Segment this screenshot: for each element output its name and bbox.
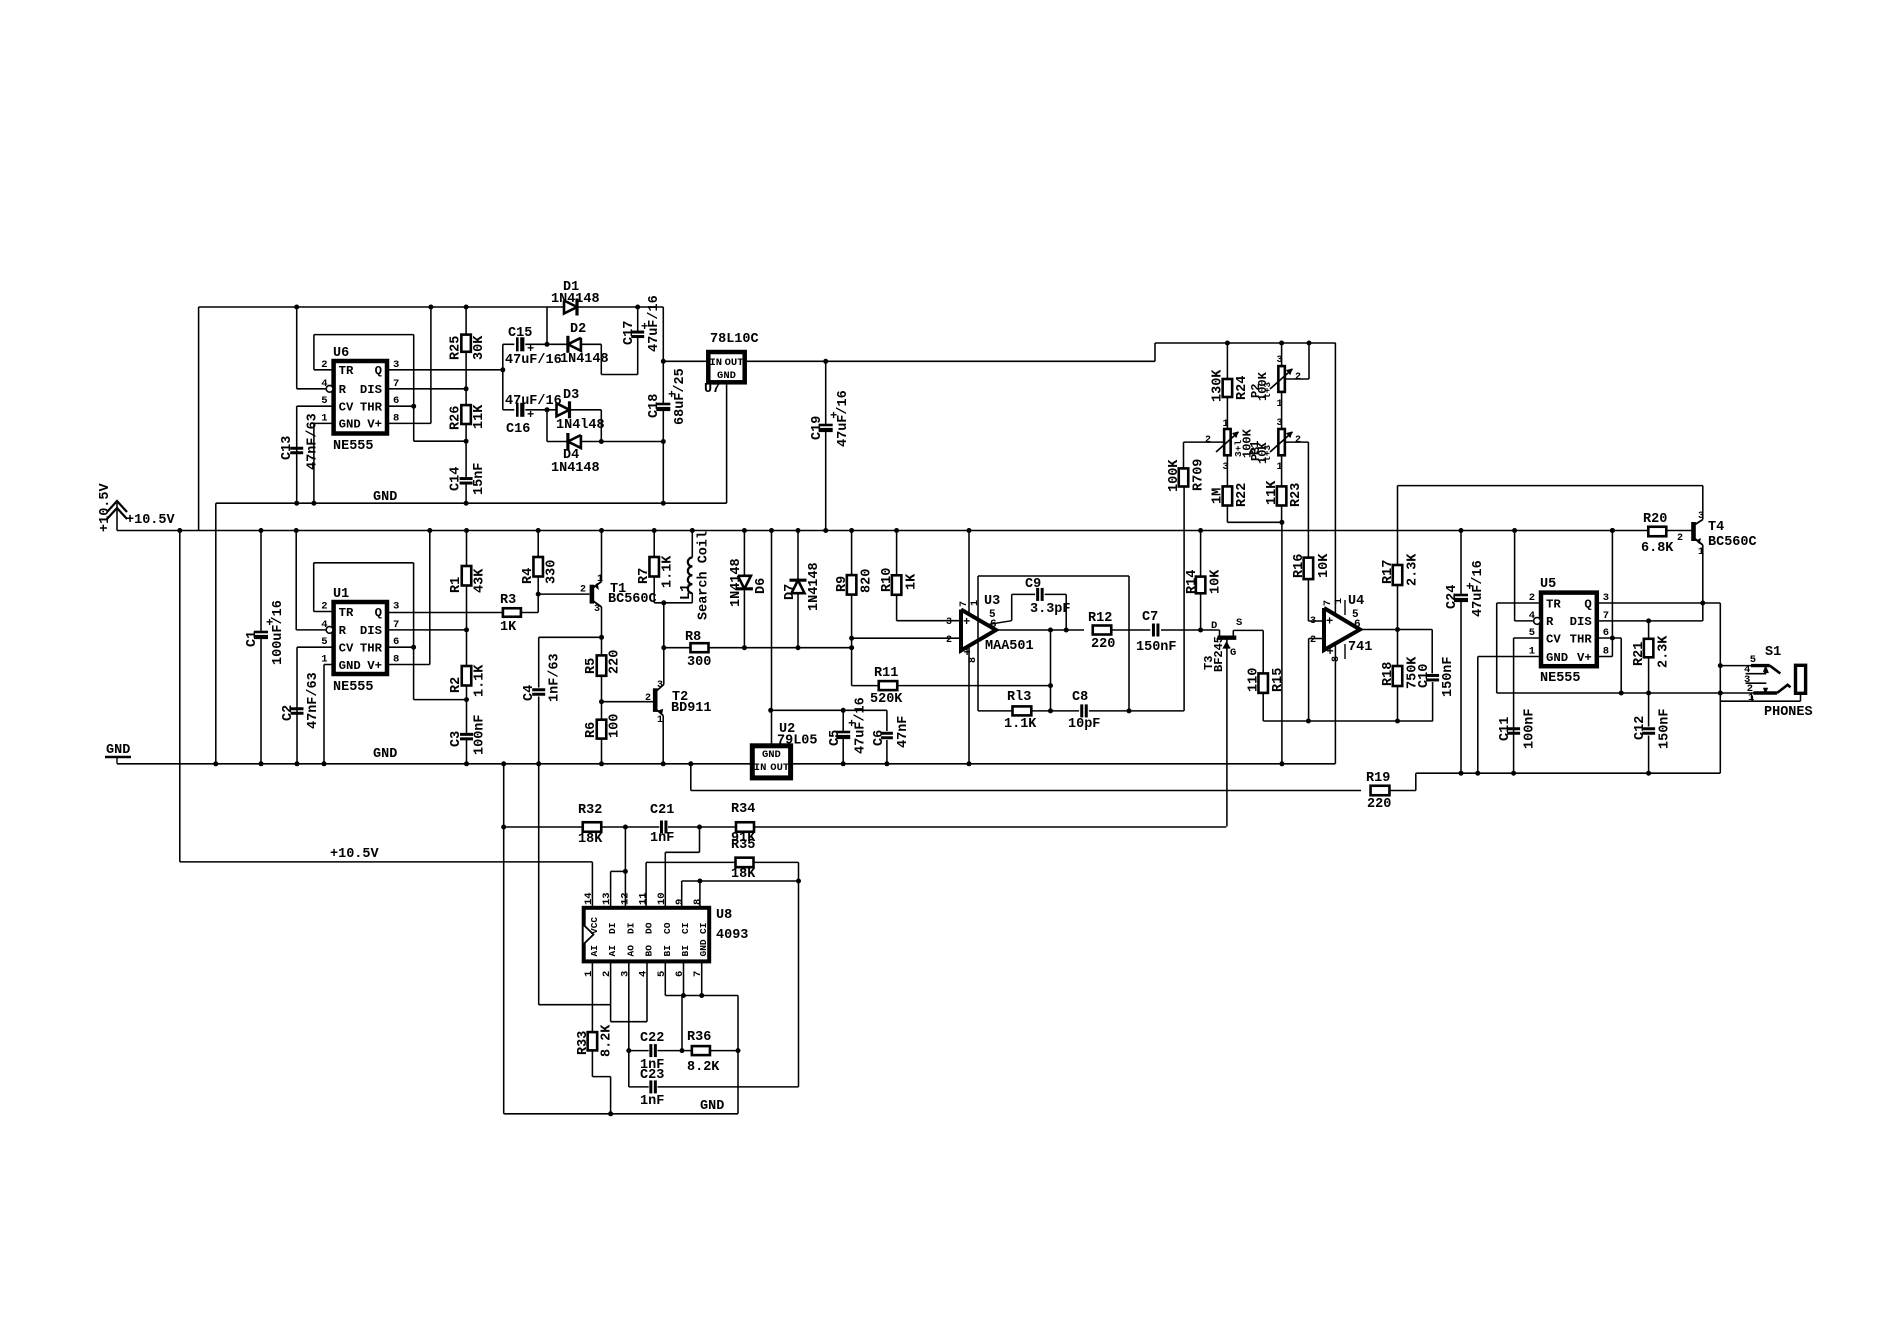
svg-text:GND: GND (700, 1099, 724, 1114)
svg-text:1: 1 (1748, 692, 1754, 704)
svg-text:C14: C14 (449, 467, 464, 491)
svg-text:2: 2 (321, 359, 327, 371)
resistor R3 1K (503, 608, 521, 617)
svg-text:47uF/16: 47uF/16 (1471, 560, 1486, 617)
svg-text:Q: Q (375, 606, 383, 620)
svg-text:U4: U4 (1348, 594, 1364, 609)
resistor R19 220 (1371, 786, 1390, 796)
svg-text:7: 7 (1603, 610, 1609, 622)
svg-text:6: 6 (1354, 619, 1361, 631)
svg-text:9: 9 (674, 899, 686, 905)
svg-text:+: + (963, 615, 970, 629)
svg-text:11K: 11K (472, 404, 487, 429)
svg-text:2.3K: 2.3K (1406, 553, 1421, 586)
svg-text:79L05: 79L05 (777, 734, 818, 749)
svg-text:1: 1 (1334, 598, 1345, 604)
wire R pin U5 (1515, 620, 1534, 622)
svg-text:8: 8 (393, 412, 399, 424)
svg-text:1M: 1M (1211, 488, 1226, 504)
wire R22/R23 rail down to GND (1281, 522, 1283, 764)
wire CV pin U5 / C11 (1514, 637, 1541, 639)
svg-text:1: 1 (321, 412, 327, 424)
svg-text:CI: CI (698, 923, 709, 934)
wire GND drop to R19 line (690, 764, 692, 791)
capacitor C4 1nF/63 (532, 688, 545, 691)
svg-text:GND: GND (1546, 651, 1568, 665)
resistor R20 6.8K (1648, 527, 1666, 537)
svg-text:GND: GND (373, 747, 397, 762)
svg-text:R: R (339, 383, 347, 397)
resistor R17 2.3K (1397, 486, 1399, 565)
diode D6 1N4148 (743, 531, 745, 576)
svg-text:47uF/16: 47uF/16 (505, 394, 562, 409)
svg-text:R12: R12 (1088, 611, 1112, 626)
capacitor C5 47uF/16 (842, 710, 844, 731)
diode D4 1N4148 (568, 435, 581, 448)
svg-text:S: S (1236, 617, 1242, 629)
svg-text:C22: C22 (640, 1031, 664, 1046)
wire R16 to U4 + input (1308, 620, 1324, 622)
svg-text:6.8K: 6.8K (1641, 541, 1674, 556)
svg-text:820: 820 (860, 569, 875, 593)
svg-text:6: 6 (1603, 627, 1609, 639)
svg-text:U5: U5 (1540, 577, 1556, 592)
svg-text:DIS: DIS (360, 624, 382, 638)
capacitor C13 (290, 447, 303, 450)
wire CV pin U6 / C13 column (297, 405, 334, 407)
svg-text:C12: C12 (1633, 716, 1648, 740)
svg-text:8: 8 (1603, 646, 1609, 658)
svg-text:7: 7 (959, 601, 970, 607)
svg-text:100K: 100K (1167, 459, 1182, 492)
resistor R18 750K (1397, 630, 1399, 667)
wire GND branch x503.7 (503, 764, 505, 1114)
svg-text:15nF: 15nF (472, 463, 487, 495)
svg-text:V+: V+ (367, 418, 382, 432)
svg-text:PHONES: PHONES (1764, 705, 1813, 720)
wire CV pin U1 / C2 (297, 646, 334, 648)
svg-text:2: 2 (1677, 533, 1683, 544)
svg-text:6: 6 (990, 619, 997, 631)
wire Q to C15/C16 node (502, 344, 504, 410)
svg-text:7: 7 (393, 378, 399, 390)
svg-text:2: 2 (580, 585, 586, 596)
wire pin9/pin8 row (682, 880, 799, 882)
capacitor C8 10pF (1080, 704, 1083, 717)
svg-text:18K: 18K (731, 867, 756, 882)
svg-text:R17: R17 (1381, 560, 1396, 584)
svg-text:BD911: BD911 (671, 701, 712, 716)
R32/C21/R34 oscillator line (504, 826, 583, 828)
svg-text:BI: BI (662, 945, 673, 956)
svg-text:R9: R9 (835, 576, 850, 592)
svg-text:V+: V+ (1577, 651, 1592, 665)
svg-text:C13: C13 (280, 436, 295, 460)
svg-text:C24: C24 (1445, 585, 1460, 609)
svg-text:CO: CO (662, 922, 673, 934)
svg-text:2: 2 (1310, 635, 1316, 646)
wire P2 wiper (1285, 378, 1309, 380)
wire R pin U1 (296, 629, 326, 631)
U8 pin stubs bottom (591, 961, 593, 1032)
svg-text:C1: C1 (245, 631, 260, 647)
svg-text:TR: TR (1546, 597, 1561, 611)
svg-text:Q: Q (375, 364, 383, 378)
svg-text:68uF/25: 68uF/25 (673, 368, 688, 425)
svg-text:11: 11 (638, 892, 650, 905)
svg-text:CV: CV (339, 401, 354, 415)
svg-text:BF245: BF245 (1212, 636, 1226, 672)
resistor R25 (465, 307, 467, 335)
svg-text:R3: R3 (500, 593, 516, 608)
svg-text:4093: 4093 (716, 928, 748, 943)
svg-text:NE555: NE555 (333, 439, 374, 454)
svg-text:6: 6 (393, 636, 399, 648)
svg-text:CI: CI (680, 923, 691, 934)
svg-text:Q: Q (1584, 597, 1592, 611)
svg-text:47uF/16: 47uF/16 (854, 697, 869, 754)
svg-text:C18: C18 (647, 394, 662, 418)
svg-text:R18: R18 (1381, 662, 1396, 686)
U8 GND rail (504, 1113, 738, 1115)
capacitor C7 150nF (1152, 624, 1155, 637)
svg-text:+10.5V: +10.5V (126, 513, 176, 528)
svg-text:R21: R21 (1632, 642, 1647, 666)
svg-text:DI: DI (607, 923, 618, 934)
resistor R10 1K (896, 531, 898, 576)
svg-text:U7: U7 (704, 382, 720, 397)
transistor T2 BD911 (602, 701, 654, 703)
svg-text:BO: BO (644, 945, 655, 957)
svg-text:5: 5 (321, 395, 327, 407)
capacitor C16 (503, 409, 515, 411)
svg-text:3.3pF: 3.3pF (1030, 602, 1071, 617)
wire C16 riser to D4 (546, 410, 548, 442)
svg-text:7: 7 (393, 619, 399, 631)
svg-text:220: 220 (1091, 637, 1115, 652)
op-amp U4 741 (1324, 608, 1360, 650)
capacitor C2 47nF/63 (291, 707, 304, 710)
+10.5V power arrow (116, 503, 118, 531)
svg-text:G: G (1230, 647, 1236, 659)
capacitor C10 150nF (1431, 630, 1433, 674)
wire P3 wiper to R16 (1285, 441, 1308, 443)
resistor R36 8.2K (692, 1046, 710, 1055)
svg-text:3+l: 3+l (1233, 440, 1244, 457)
wire GND riser x1335 (1334, 343, 1336, 764)
svg-text:R: R (339, 624, 347, 638)
svg-text:S1: S1 (1765, 645, 1781, 660)
wire GND pin U1 (324, 664, 334, 666)
NE555 U6 (334, 361, 387, 434)
svg-text:+10.5V: +10.5V (98, 482, 113, 532)
svg-text:100nF: 100nF (473, 714, 488, 755)
diode D3 1N4148 (557, 403, 570, 416)
svg-text:47nF/63: 47nF/63 (306, 672, 321, 729)
potentiometer P2 100K (1281, 343, 1283, 366)
wire TR pin U5 (1497, 602, 1541, 604)
svg-text:R26: R26 (449, 406, 464, 430)
transistor T4 BC560C (1691, 522, 1696, 541)
svg-text:GND: GND (698, 939, 709, 956)
svg-text:C21: C21 (650, 803, 674, 818)
svg-text:220: 220 (608, 650, 623, 674)
capacitor C19 47uF/16 (825, 361, 827, 424)
svg-text:C23: C23 (640, 1068, 664, 1083)
svg-text:10K: 10K (1209, 569, 1224, 594)
wire U4 output (1360, 629, 1432, 631)
resistor R26 (465, 389, 467, 405)
svg-text:78L10C: 78L10C (710, 332, 759, 347)
svg-text:V+: V+ (367, 659, 382, 673)
svg-text:520K: 520K (870, 692, 903, 707)
svg-text:BC560C: BC560C (608, 592, 657, 607)
svg-text:30K: 30K (472, 335, 487, 360)
wire jack return (1751, 696, 1753, 702)
U6 GND rail (216, 502, 727, 504)
svg-text:DIS: DIS (1570, 615, 1592, 629)
NE555 U5 (1541, 593, 1597, 667)
svg-text:1K: 1K (500, 620, 517, 635)
resistor R13 1.1K (978, 710, 1013, 712)
capacitor C21 1nF (660, 821, 663, 834)
svg-text:R11: R11 (874, 666, 898, 681)
svg-text:C11: C11 (1498, 717, 1513, 741)
svg-text:3: 3 (946, 617, 952, 628)
svg-text:BC560C: BC560C (1708, 535, 1757, 550)
svg-text:1: 1 (1529, 646, 1535, 658)
svg-text:330: 330 (545, 560, 560, 584)
svg-text:1.1K: 1.1K (1004, 717, 1037, 732)
svg-text:8: 8 (393, 654, 399, 666)
svg-text:R4: R4 (521, 568, 536, 584)
svg-text:1: 1 (1223, 419, 1229, 430)
svg-text:Search Coil: Search Coil (697, 531, 712, 620)
diode D1 1N4148 (564, 301, 577, 314)
C5/C6 top rail (771, 709, 887, 711)
svg-text:3: 3 (1603, 592, 1609, 604)
svg-text:R36: R36 (687, 1030, 711, 1045)
headphone jack (1796, 665, 1806, 693)
svg-text:R: R (1546, 615, 1554, 629)
diode D2 1N4148 (568, 338, 581, 351)
wire (1666, 530, 1691, 532)
svg-text:+: + (1326, 615, 1333, 629)
wire top rail to C18 col (638, 306, 664, 308)
wire C21 node to pin10 (699, 827, 701, 852)
resistor R12 220 (1093, 626, 1112, 635)
svg-text:GND: GND (717, 370, 736, 382)
svg-text:100nF: 100nF (1523, 708, 1538, 749)
svg-text:5: 5 (321, 636, 327, 648)
svg-text:2: 2 (1205, 435, 1211, 446)
svg-text:C10: C10 (1417, 664, 1432, 688)
svg-text:10pF: 10pF (1068, 717, 1100, 732)
resistor R4 330 (537, 531, 539, 558)
wire Q pin U5 (1597, 602, 1721, 604)
wire TR loop U6 (314, 369, 334, 371)
transistor T1 BC560C (590, 585, 595, 604)
resistor R7 1.1K (653, 531, 655, 558)
svg-text:U1: U1 (333, 587, 349, 602)
resistor R6 100 (597, 720, 607, 739)
svg-text:l+3: l+3 (1262, 382, 1273, 399)
svg-text:OUT: OUT (770, 762, 789, 774)
capacitor C11 100nF (1507, 727, 1520, 730)
U8 pin stubs top (591, 862, 593, 908)
svg-text:3: 3 (1277, 418, 1283, 429)
resistor R14 10K (1200, 531, 1202, 577)
svg-text:100uF/16: 100uF/16 (271, 600, 286, 665)
svg-text:R34: R34 (731, 802, 755, 817)
svg-text:11K: 11K (1265, 480, 1280, 505)
svg-text:R1: R1 (449, 577, 464, 593)
svg-text:R33: R33 (576, 1031, 591, 1055)
svg-text:TR: TR (339, 364, 354, 378)
svg-text:GND: GND (339, 659, 361, 673)
wire D3 to D4 row (600, 410, 602, 442)
svg-text:DO: DO (644, 922, 655, 934)
capacitor C22 1nF (629, 1050, 649, 1052)
svg-text:8: 8 (1331, 656, 1342, 662)
svg-text:2.3K: 2.3K (1657, 635, 1672, 668)
resistor R9 820 (851, 531, 853, 576)
svg-text:l+3: l+3 (1262, 445, 1273, 462)
svg-text:R16: R16 (1292, 554, 1307, 578)
resistor R11 520K (852, 685, 879, 687)
svg-text:100: 100 (608, 714, 623, 738)
svg-text:GND: GND (373, 490, 397, 505)
svg-text:D7: D7 (783, 584, 798, 600)
voltage regulator U7 78L10C (663, 360, 708, 362)
svg-text:THR: THR (1570, 632, 1593, 646)
78L10C output +10V wire (745, 360, 1155, 362)
svg-text:GND: GND (762, 749, 781, 761)
wire V+ pin U1 (387, 664, 430, 666)
wire DIS pin U6 (387, 388, 466, 390)
diode D7 1N4148 (797, 531, 799, 581)
svg-text:47nF: 47nF (896, 716, 911, 748)
svg-text:1: 1 (970, 600, 981, 606)
svg-text:130K: 130K (1211, 369, 1226, 402)
svg-text:IN: IN (710, 357, 723, 369)
capacitor C1 100uF/16 (260, 531, 262, 632)
svg-text:3: 3 (657, 680, 663, 691)
svg-text:5: 5 (1529, 627, 1535, 639)
svg-text:R6: R6 (584, 722, 599, 738)
svg-text:C6: C6 (872, 730, 887, 746)
svg-text:3: 3 (393, 359, 399, 371)
wire T4 collector feed (1398, 485, 1703, 487)
svg-text:C17: C17 (622, 321, 637, 345)
wire +10.5V feed down-left (179, 531, 181, 862)
svg-text:7: 7 (1323, 600, 1334, 606)
svg-text:1.1K: 1.1K (473, 664, 488, 697)
svg-text:R10: R10 (880, 568, 895, 592)
op-amp U3 (961, 610, 996, 651)
svg-text:T4: T4 (1708, 520, 1724, 535)
svg-text:D: D (1211, 620, 1217, 632)
svg-text:C7: C7 (1142, 610, 1158, 625)
svg-text:3: 3 (393, 601, 399, 613)
wire Q pin U6 (387, 369, 503, 371)
svg-text:110: 110 (1247, 668, 1262, 692)
svg-text:741: 741 (1348, 640, 1372, 655)
capacitor C17 (637, 307, 639, 331)
svg-text:1N4148: 1N4148 (551, 461, 600, 476)
svg-text:150nF: 150nF (1441, 656, 1456, 697)
svg-text:NE555: NE555 (1540, 671, 1581, 686)
svg-text:D6: D6 (754, 578, 769, 594)
svg-text:R19: R19 (1366, 771, 1390, 786)
right GND return wire (1416, 772, 1721, 774)
resistor R2 1.1K (466, 630, 468, 666)
potentiometer P3 10K (1278, 429, 1285, 455)
svg-text:R24: R24 (1235, 376, 1250, 400)
wire output to feedback (1050, 630, 1052, 711)
svg-text:2: 2 (1529, 592, 1535, 604)
svg-text:AO: AO (625, 945, 636, 957)
NE555 U1 (334, 602, 387, 674)
svg-text:6: 6 (393, 395, 399, 407)
wire THR pin U5 (1597, 637, 1621, 639)
svg-text:1nF: 1nF (650, 831, 674, 846)
svg-text:1: 1 (321, 654, 327, 666)
svg-text:C8: C8 (1072, 690, 1088, 705)
resistor R15 110 (1262, 630, 1264, 673)
svg-text:R15: R15 (1271, 668, 1286, 692)
resistor R22 1M (1223, 486, 1233, 505)
svg-text:TR: TR (339, 606, 354, 620)
resistor R33 8.2K (588, 1032, 598, 1050)
wire R pin U6 (297, 388, 327, 390)
wire Q U1 to R3 (387, 612, 503, 614)
svg-text:Rl3: Rl3 (1007, 690, 1031, 705)
svg-text:R32: R32 (578, 803, 602, 818)
svg-text:18K: 18K (578, 832, 603, 847)
svg-text:C3: C3 (449, 731, 464, 747)
capacitor C14 (460, 477, 473, 480)
svg-text:DIS: DIS (360, 383, 382, 397)
svg-text:R22: R22 (1235, 483, 1250, 507)
wire Q to S1 (1719, 603, 1721, 693)
svg-text:2: 2 (321, 601, 327, 613)
resistor R32 18K (583, 822, 602, 832)
svg-text:2: 2 (946, 635, 952, 646)
wire U7 GND pin (726, 382, 728, 503)
svg-text:D3: D3 (563, 388, 579, 403)
svg-text:R709: R709 (1192, 459, 1207, 491)
wire U3 power vertical (968, 531, 970, 764)
svg-text:C9: C9 (1025, 577, 1041, 592)
wire base T1 (538, 593, 589, 595)
svg-text:1K: 1K (905, 573, 920, 590)
GND bus (left, to U2.IN / U2.OUT rail to right) (117, 763, 1335, 765)
svg-text:AI: AI (589, 945, 600, 956)
voltage regulator U2 79L05 (752, 746, 790, 778)
svg-text:CV: CV (1546, 632, 1561, 646)
svg-text:C4: C4 (522, 685, 537, 701)
svg-text:MAA501: MAA501 (985, 639, 1034, 654)
svg-text:47uF/16: 47uF/16 (505, 353, 562, 368)
svg-text:VCC: VCC (589, 917, 600, 934)
potentiometer P1 100K (1224, 429, 1231, 455)
svg-text:1N4148: 1N4148 (551, 292, 600, 307)
source/drain load rail (1263, 720, 1433, 722)
svg-text:+10.5V: +10.5V (330, 847, 380, 862)
svg-text:R8: R8 (685, 630, 701, 645)
svg-text:300: 300 (687, 655, 711, 670)
